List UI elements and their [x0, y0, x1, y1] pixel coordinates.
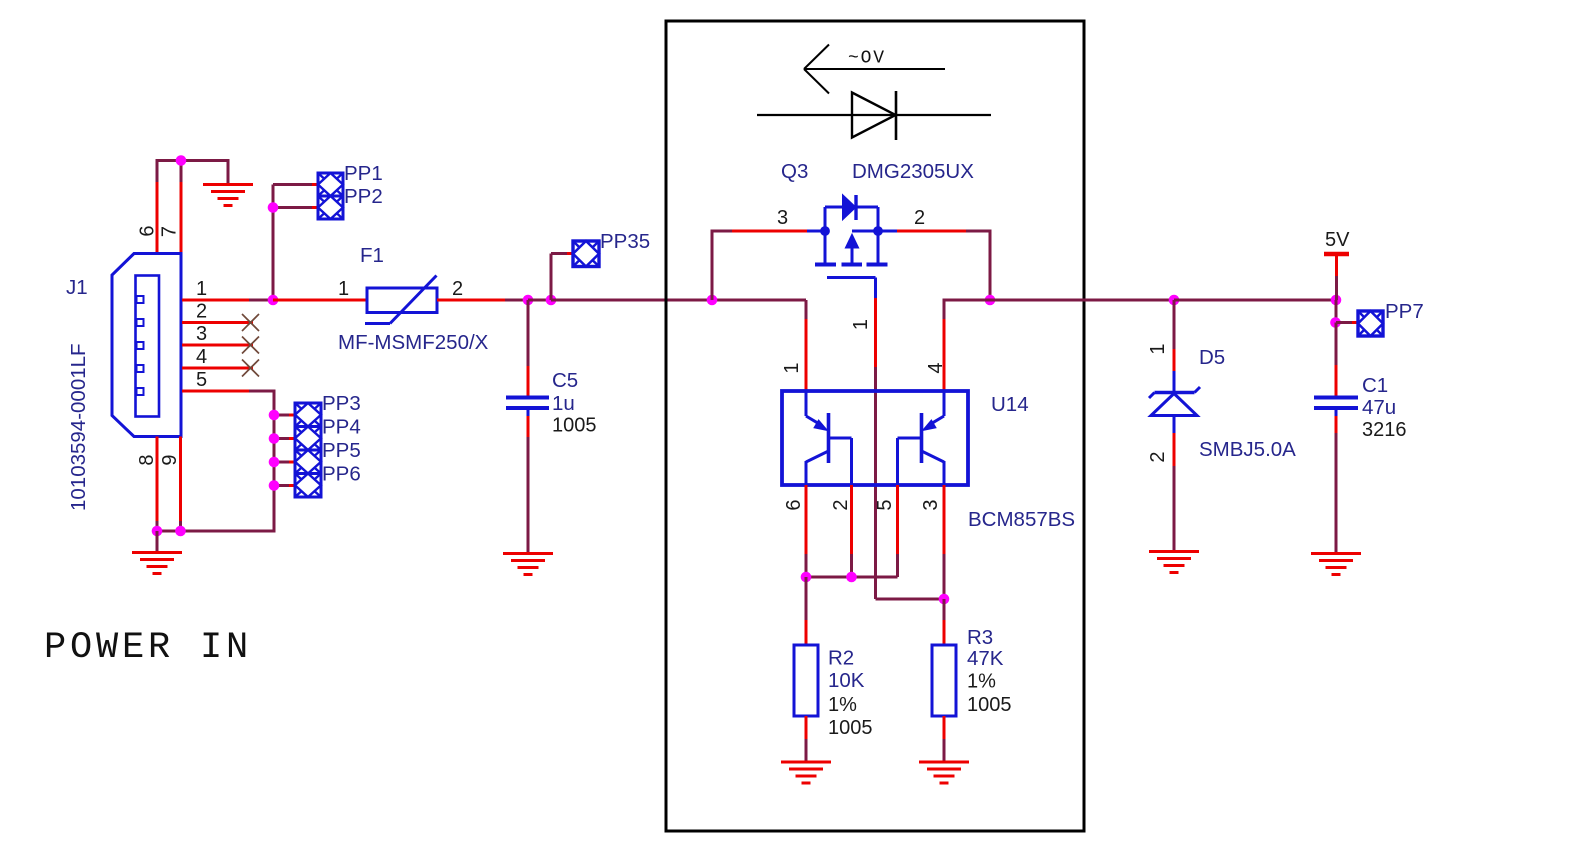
svg-text:SMBJ5.0A: SMBJ5.0A [1199, 438, 1296, 461]
wire R2 lower lead [805, 716, 808, 761]
wire C5 to PP35 node [528, 299, 551, 302]
svg-text:3: 3 [196, 323, 207, 345]
svg-text:PP3: PP3 [322, 392, 361, 415]
junction dot VBUS at J1 [268, 295, 279, 306]
J1 pin1 wire [182, 299, 273, 302]
svg-text:1%: 1% [828, 694, 857, 716]
junction dot pin8 [152, 526, 163, 537]
svg-text:2: 2 [830, 499, 852, 510]
svg-text:5: 5 [874, 499, 896, 510]
svg-text:4: 4 [925, 362, 947, 373]
ground GND (under R3) [919, 762, 969, 783]
wire U14 pin4 drop [943, 300, 991, 391]
wire J1 pin7 vertical [180, 161, 183, 255]
svg-text:6: 6 [783, 499, 805, 510]
wire PP4 tap [274, 437, 295, 440]
svg-text:1: 1 [781, 362, 803, 373]
capacitor C1 lower lead [1335, 408, 1338, 552]
wire U14 pin3 drop [943, 485, 946, 599]
wire F1 pin2 [437, 299, 528, 302]
current direction arrow [804, 45, 945, 94]
wire Q3 gate drop [874, 298, 877, 599]
svg-text:PP35: PP35 [600, 230, 650, 253]
junction dot PP3 [269, 410, 280, 421]
J1 pin8 wire [156, 437, 159, 532]
wire PP7 tap [1336, 321, 1358, 324]
svg-text:2: 2 [452, 278, 463, 300]
test point PP35 [573, 241, 599, 267]
svg-text:1: 1 [1147, 343, 1169, 354]
junction dot D5 [1169, 295, 1180, 306]
ground GND (under D5) [1149, 552, 1199, 573]
junction dot C5 [523, 295, 534, 306]
wire Q3 pin3 riser [712, 230, 807, 301]
resistor R3 [932, 645, 956, 716]
test point PP3 [295, 403, 321, 427]
ground GND (top-left) [203, 185, 253, 206]
wire 5V to PP7 node [1335, 300, 1338, 323]
J1 pin2 wire [182, 321, 253, 324]
svg-text:U14: U14 [991, 393, 1029, 416]
capacitor C5 upper lead [527, 300, 530, 396]
svg-text:2: 2 [914, 207, 925, 229]
transistor Q3 P-MOSFET symbol [807, 195, 897, 299]
diode D5 zener TVS [1149, 371, 1200, 433]
ground GND (under J1) [132, 553, 182, 574]
svg-text:3216: 3216 [1362, 419, 1407, 441]
capacitor C1 plates [1314, 398, 1358, 409]
junction dot 5V [1331, 295, 1342, 306]
ground GND (under C5) [503, 554, 553, 575]
no-connect X pin3 [242, 337, 259, 354]
svg-text:1%: 1% [967, 671, 996, 693]
junction dot pin6-R2 [801, 572, 812, 583]
J1 pin4 wire [182, 367, 253, 370]
ground GND (under R2) [781, 762, 831, 783]
test point PP4 [295, 427, 321, 451]
svg-text:C1: C1 [1362, 374, 1388, 397]
svg-text:1: 1 [338, 278, 349, 300]
wire 5V net out of box [990, 299, 1174, 302]
capacitor C1 upper lead [1335, 323, 1338, 396]
power symbol 5V [1324, 254, 1349, 300]
connector J1 body [112, 254, 181, 437]
svg-text:3: 3 [777, 207, 788, 229]
wire gate bus to pin3 [876, 598, 945, 601]
svg-text:9: 9 [159, 454, 181, 465]
capacitor C5 plates [506, 398, 549, 409]
resistor R2 [794, 645, 818, 716]
svg-text:6: 6 [137, 225, 159, 236]
block outline box [666, 21, 1084, 831]
wire GND top-left horizontal [156, 159, 230, 162]
wire main net into box [551, 299, 806, 302]
svg-text:R2: R2 [828, 647, 854, 670]
svg-text:~OV: ~OV [848, 49, 886, 69]
svg-text:PP5: PP5 [322, 439, 361, 462]
svg-text:1005: 1005 [828, 717, 873, 739]
J1 pin5 wire [182, 390, 276, 393]
svg-text:POWER IN: POWER IN [44, 627, 252, 669]
wire PP6 tap [274, 484, 295, 487]
no-connect X pin2 [242, 314, 259, 331]
junction dot PP5 [269, 457, 280, 468]
transistor U14 BCM857BS dual PNP [782, 391, 968, 485]
svg-text:1: 1 [850, 319, 872, 330]
svg-text:PP1: PP1 [344, 162, 383, 185]
svg-text:PP4: PP4 [322, 416, 361, 439]
wire PP2 tap [273, 206, 318, 209]
svg-text:1u: 1u [552, 392, 575, 415]
svg-text:DMG2305UX: DMG2305UX [852, 160, 974, 183]
wire base bus 6-2-5 [806, 554, 898, 577]
wire D5 lower lead [1173, 433, 1176, 550]
junction dot pins6-7 [176, 155, 187, 166]
svg-text:PP7: PP7 [1385, 300, 1424, 323]
svg-text:R3: R3 [967, 626, 993, 649]
wire R2 upper lead [805, 577, 808, 645]
svg-text:MF-MSMF250/X: MF-MSMF250/X [338, 331, 489, 354]
junction dot Q3 source [707, 295, 718, 306]
svg-text:Q3: Q3 [781, 160, 808, 183]
junction dot PP35 [546, 295, 557, 306]
wire bottom shield bus [156, 530, 275, 533]
svg-text:J1: J1 [66, 276, 88, 299]
wire PP5 tap [274, 461, 295, 464]
fuse F1 [365, 276, 437, 324]
wire PP1 tap [273, 183, 318, 186]
ground GND (under C1) [1311, 554, 1361, 575]
wire PP35 riser [551, 254, 573, 301]
capacitor C5 lower lead [527, 408, 530, 552]
svg-text:47u: 47u [1362, 396, 1396, 419]
svg-text:3: 3 [920, 499, 942, 510]
junction dot Q3 drain [985, 295, 996, 306]
svg-text:2: 2 [1147, 451, 1169, 462]
diode symbol (ideal diode annotation) [757, 91, 991, 140]
wire R3 upper lead [943, 599, 946, 645]
J1 pin9 wire [179, 437, 182, 532]
test point PP5 [295, 450, 321, 474]
wire U14 pin1 drop [805, 300, 808, 391]
wire ground drop [227, 161, 230, 185]
J1 pin3 wire [182, 344, 253, 347]
wire D5 upper lead [1173, 300, 1176, 371]
wire D5 to C1 [1174, 299, 1336, 302]
svg-text:C5: C5 [552, 369, 578, 392]
svg-text:1: 1 [196, 278, 207, 300]
wire PP3-6 riser [273, 391, 276, 533]
wire PP1-PP2 riser to net [272, 185, 275, 301]
wire J1 pin6 vertical [156, 161, 159, 255]
svg-text:BCM857BS: BCM857BS [968, 508, 1075, 531]
svg-text:F1: F1 [360, 244, 384, 267]
junction dot PP4 [269, 433, 280, 444]
svg-text:2: 2 [196, 301, 207, 323]
svg-text:10K: 10K [828, 669, 865, 692]
no-connect X pin4 [242, 360, 259, 377]
svg-text:1005: 1005 [967, 694, 1012, 716]
svg-text:4: 4 [196, 346, 207, 368]
junction dot pin9 [175, 526, 186, 537]
svg-text:D5: D5 [1199, 346, 1225, 369]
svg-text:7: 7 [159, 226, 181, 237]
test point PP6 [295, 474, 321, 498]
svg-text:1005: 1005 [552, 415, 597, 437]
svg-text:10103594-0001LF: 10103594-0001LF [67, 343, 90, 511]
svg-text:5: 5 [196, 369, 207, 391]
svg-text:8: 8 [136, 454, 158, 465]
junction dot PP7 [1330, 317, 1341, 328]
svg-text:PP2: PP2 [344, 185, 383, 208]
test point PP1 [318, 173, 343, 196]
wire U14 pin5 drop [896, 485, 899, 577]
svg-text:5V: 5V [1325, 229, 1350, 251]
wire PP3 tap [274, 414, 295, 417]
wire U14 pin6 drop [805, 485, 808, 577]
junction dot PP6 [269, 480, 280, 491]
wire ground stub [156, 531, 159, 551]
svg-text:PP6: PP6 [322, 463, 361, 486]
wire F1 pin1 [273, 299, 367, 302]
test point PP2 [318, 196, 343, 219]
wire Q3 pin2 riser [897, 230, 990, 301]
svg-text:47K: 47K [967, 647, 1004, 670]
junction dot pin3-R3 [939, 594, 950, 605]
wire U14 pin2 drop [850, 485, 853, 577]
junction dot PP2 [268, 202, 279, 213]
test point PP7 [1358, 311, 1383, 336]
junction dot pin2 [846, 572, 857, 583]
wire R3 lower lead [943, 716, 946, 761]
